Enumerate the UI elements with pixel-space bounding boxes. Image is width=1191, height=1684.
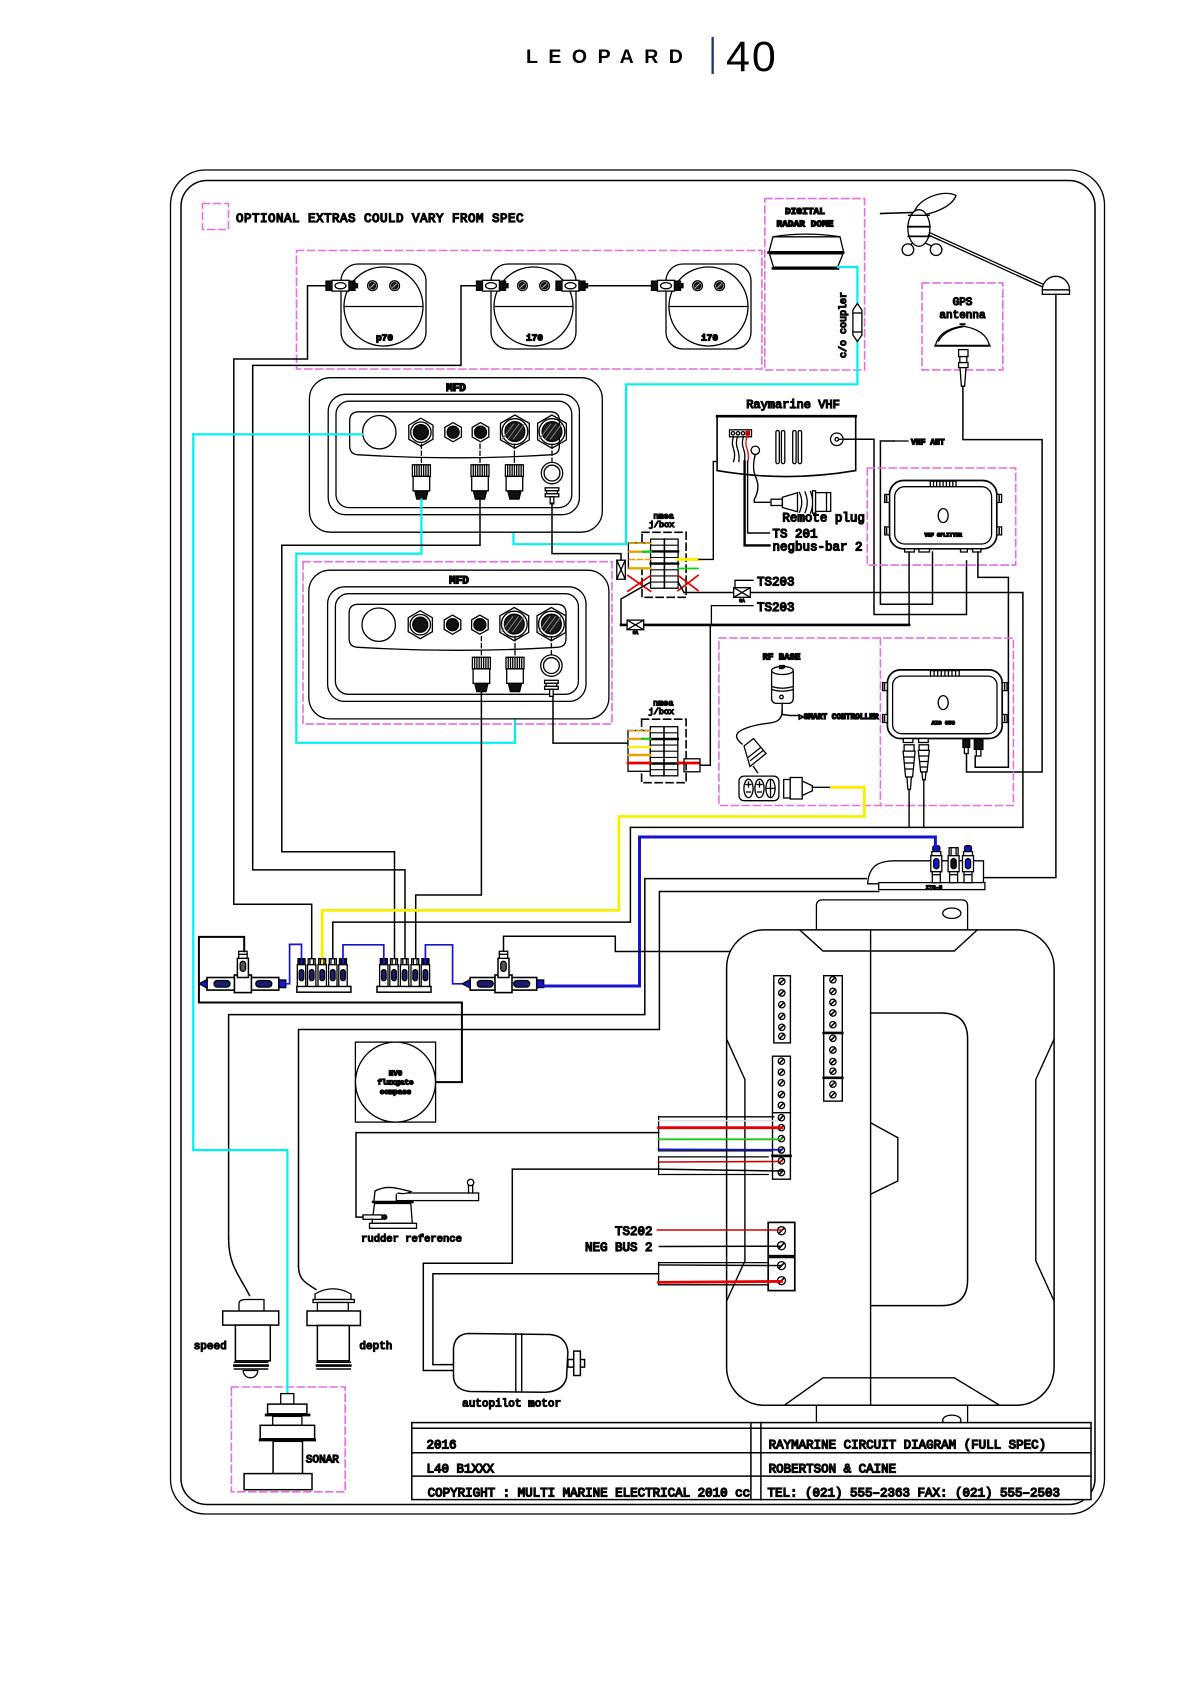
optional instruments dashed box (297, 251, 762, 370)
wire MFD1 ring connector to j/box fuse (552, 503, 621, 561)
svg-text:OPTIONAL EXTRAS COULD VARY FRO: OPTIONAL EXTRAS COULD VARY FROM SPEC (236, 212, 524, 226)
motor cable bundle (659, 1263, 769, 1285)
svg-text:TS203: TS203 (757, 576, 795, 590)
svg-text:GPS: GPS (953, 297, 973, 309)
MFD 1 (309, 378, 602, 533)
cyan wire into MFD1 left (193, 433, 362, 435)
AIS antenna plug 1 (903, 745, 915, 790)
blue wire T-left to block1 (286, 944, 302, 983)
wires AIS plugs to power junction (908, 790, 910, 828)
j/box2 output connector (684, 759, 700, 772)
ACU terminal strip C (773, 1056, 791, 1179)
j/box1 diagonal to negbus (621, 582, 651, 625)
ACU top notch (800, 930, 977, 951)
j/box1 red X right (678, 575, 698, 590)
wire ITC-5 to speed transducer (229, 879, 867, 1239)
svg-text:p70: p70 (376, 333, 393, 344)
RF base dashed box (719, 638, 1014, 806)
rudder reference (363, 1179, 479, 1228)
remote plug (771, 491, 831, 513)
VHF wire squiggles (732, 437, 748, 462)
wire splitter tab2 to VHF ANT (880, 441, 932, 604)
inline fuse 3A on negbus wire (627, 620, 644, 630)
j/box2 colored stubs (628, 731, 650, 763)
second cable bundle (659, 1157, 769, 1175)
VHF wiring connector block (730, 430, 752, 437)
ITC-5 converter (868, 861, 985, 891)
svg-text:fluxgate: fluxgate (377, 1080, 414, 1088)
inline fuse 3A on TS203 line (734, 588, 751, 598)
j/box1 colored stubs (630, 543, 651, 568)
svg-text:VHF ANT: VHF ANT (911, 439, 945, 448)
svg-text:MFD: MFD (446, 383, 466, 395)
TNC plug (744, 739, 766, 773)
black motor wire (659, 1264, 782, 1267)
instrument i70 (first) (491, 264, 576, 349)
MFD2 optional dashed box (303, 562, 612, 724)
svg-text:i70: i70 (526, 333, 543, 344)
green wire (659, 1138, 782, 1140)
TS 201 wire and label (748, 462, 770, 534)
wire j/box1 to VHF power leads (699, 462, 739, 560)
mast pole (929, 233, 1046, 288)
VHF radio body (717, 416, 856, 476)
yellow wire smart controller to backbone plug (322, 787, 864, 960)
wire splitter tab4 to AIS antenna plug (975, 552, 1008, 767)
title block (412, 1423, 1091, 1500)
ACU body (727, 930, 1055, 1405)
svg-text:RF: RF (779, 665, 785, 671)
ACU inner cover (871, 1013, 968, 1306)
wire splitter tab1 to negbus (908, 552, 910, 625)
remote plug cable (754, 455, 771, 503)
GPS wire to AIS (963, 386, 1042, 772)
AIS bottom tabs (903, 739, 928, 743)
i70 #2 connector (652, 280, 684, 291)
thick red motor wire (659, 1281, 782, 1282)
svg-text:compass: compass (380, 1089, 412, 1097)
wire MFD2 plug1 to backbone block2 plug4 (416, 692, 482, 960)
ACU latch (871, 1123, 898, 1195)
svg-text:VHF SPLITTER: VHF SPLITTER (925, 533, 963, 539)
instrument i70 (second) (666, 264, 751, 349)
svg-text:depth: depth (359, 1341, 392, 1353)
TS203 label 1 (735, 580, 753, 588)
backbone T-connector right (462, 951, 544, 992)
RF base device (772, 665, 794, 704)
ACU bottom notch (785, 1378, 999, 1405)
ACU terminal strip A (774, 976, 791, 1043)
j/box1 yellow output to VHF (678, 558, 699, 561)
c/o coupler inline capsule (853, 304, 862, 342)
svg-text:speed: speed (194, 1341, 227, 1353)
j/box2 red output (678, 762, 699, 765)
legend: optional extras dashed box (203, 204, 229, 230)
ACU inner contour right (1036, 1040, 1054, 1301)
VHF ANT leader and label (894, 440, 908, 442)
GPS antenna dashed box (922, 283, 1003, 370)
ACU center seam (870, 930, 872, 1405)
VHF splitter dashed box (867, 468, 1015, 565)
svg-text:RADAR DOME: RADAR DOME (776, 219, 833, 230)
sonar transducer (244, 1394, 315, 1490)
svg-text:TS203: TS203 (757, 601, 795, 615)
ACU top mounting tab (816, 900, 967, 929)
svg-text:j/box: j/box (649, 707, 675, 717)
dashed divider (879, 638, 881, 806)
svg-text:ROBERTSON & CAINE: ROBERTSON & CAINE (769, 1463, 897, 1477)
ITC-5 plug 3 (blue cap) (963, 846, 974, 883)
ITC-5 plug 2 (948, 848, 959, 883)
svg-text:TS 201: TS 201 (773, 528, 818, 542)
wind transducer (881, 193, 956, 255)
MFD 2 (309, 570, 609, 719)
VHF antenna jack (831, 433, 844, 446)
svg-text:3A: 3A (633, 630, 639, 636)
svg-text:i70: i70 (701, 333, 718, 344)
AIS vhf socket (974, 739, 983, 756)
wire i70#1 to i70#2 (589, 285, 652, 287)
svg-text:2016: 2016 (427, 1439, 457, 1453)
power junction horizontal (block1 plug4 / AIS / TS203) (630, 826, 1023, 828)
ACU inner contour left (727, 1040, 745, 1301)
blue link block2 to T-right (425, 945, 470, 984)
j/box1 red X left (628, 576, 651, 592)
svg-text:antenna: antenna (939, 310, 986, 322)
TS203 label 2 (711, 606, 753, 625)
svg-text:AIS 650: AIS 650 (931, 720, 955, 727)
svg-text:TS202: TS202 (615, 1225, 653, 1239)
negbus thick wire to VHF splitter (621, 624, 909, 627)
VHF vent slots (776, 431, 802, 464)
wire VHF jack to splitter tab3 (843, 439, 966, 614)
cyan wire to sonar (193, 434, 287, 1393)
VHF mic socket (751, 446, 759, 454)
smart controller plug (784, 778, 832, 800)
svg-text:COPYRIGHT : MULTI MARINE ELECT: COPYRIGHT : MULTI MARINE ELECTRICAL 2010… (428, 1487, 751, 1501)
svg-text:RF BASE: RF BASE (763, 653, 801, 663)
wire MFD1 plug2 to backbone block2 plug2 (282, 500, 480, 960)
i70 #1 right connector (556, 280, 588, 291)
svg-text:LEOPARD: LEOPARD (526, 46, 693, 68)
svg-text:DIGITAL: DIGITAL (785, 206, 825, 217)
GPS connector (959, 350, 968, 387)
instrument p70 (341, 264, 426, 349)
svg-text:Raymarine VHF: Raymarine VHF (746, 398, 840, 412)
negbus-bar 2 wire and label (745, 462, 770, 546)
ACU bottom mounting tab (816, 1406, 967, 1434)
EV0 fluxgate compass (355, 1042, 435, 1122)
backbone 5-way block 1 (297, 959, 351, 993)
thin red wire (659, 1161, 782, 1164)
backbone T-connector left (199, 951, 286, 992)
red wire (659, 1126, 782, 1129)
svg-text:ITC-5: ITC-5 (926, 884, 943, 891)
wire ITC-5 to depth transducer (299, 892, 879, 1267)
ITC-5 plug 1 (blue) (931, 846, 942, 883)
svg-text:3A: 3A (739, 598, 745, 604)
SMART CONTROLLER label (781, 703, 783, 714)
svg-text:SONAR: SONAR (306, 1455, 339, 1467)
VHF splitter (890, 481, 997, 549)
masthead base (1042, 276, 1069, 294)
black lead to motor circuit (423, 1169, 781, 1370)
inline fuse (vertical) (617, 560, 626, 579)
j/box1 green output (678, 568, 698, 570)
TS203 line 1 (to AIS power) (684, 593, 1023, 828)
svg-text:RAYMARINE CIRCUIT DIAGRAM (FUL: RAYMARINE CIRCUIT DIAGRAM (FULL SPEC) (769, 1439, 1047, 1453)
svg-text:TEL: (021) 555–2363 FAX: (021): TEL: (021) 555–2363 FAX: (021) 555–2503 (768, 1487, 1061, 1501)
svg-text:MFD: MFD (449, 576, 469, 588)
p70 connector (326, 280, 358, 291)
svg-text:rudder reference: rudder reference (361, 1234, 462, 1246)
speed transducer (223, 1300, 279, 1378)
svg-text:negbus-bar 2: negbus-bar 2 (773, 541, 863, 555)
svg-text:▷SMART CONTROLLER: ▷SMART CONTROLLER (799, 714, 879, 722)
wire MFD2 ring connector to nmea j/box 2 (553, 697, 628, 744)
ACU terminal strip E (768, 1257, 795, 1290)
wire block1 plug4 to power junction (333, 827, 631, 958)
svg-text:c/o coupler: c/o coupler (838, 292, 850, 358)
svg-text:40: 40 (726, 33, 778, 81)
j/box1 diagonal to TS203 (678, 582, 684, 593)
depth transducer (307, 1289, 360, 1369)
svg-text:EV0: EV0 (389, 1071, 403, 1079)
blue link block1 to block2 (343, 945, 384, 959)
smart controller cable (737, 710, 783, 744)
wire i70 to backbone block2 plug3 (253, 286, 477, 960)
cyan wire radar dome to MFD1 plug3 (838, 267, 857, 308)
svg-text:autopilot motor: autopilot motor (462, 1399, 561, 1411)
splitter bottom tabs (905, 549, 981, 552)
wire rudder reference to ACU (356, 1133, 659, 1218)
ACU terminal strip D (768, 1222, 795, 1255)
thick blue backbone wire to ITC-5 (640, 837, 936, 986)
radar dome body (769, 234, 844, 268)
AIS 650 (887, 670, 1002, 739)
svg-text:NEG BUS 2: NEG BUS 2 (585, 1241, 653, 1255)
svg-text:L40 B1XXX: L40 B1XXX (427, 1463, 495, 1477)
svg-text:Remote plug: Remote plug (782, 512, 865, 526)
sonar dashed box (231, 1387, 345, 1492)
GPS antenna dome (935, 324, 989, 346)
autopilot motor (454, 1334, 585, 1393)
Leopard 40 logo (526, 33, 778, 81)
AIS antenna plug 2 (918, 745, 929, 780)
digital radar dome dashed box (765, 199, 865, 370)
AIS gps socket (963, 739, 970, 754)
wire j/box2 to negbus (700, 625, 710, 765)
backbone 5-way block 2 (377, 959, 431, 993)
rudder cable bundle into ACU (659, 1117, 778, 1151)
svg-text:j/box: j/box (649, 520, 675, 530)
thick blue wire T-right to ITC-5 (544, 985, 640, 988)
wire p70 to backbone block1 plug2 (234, 286, 326, 960)
ACU terminal strip B (824, 976, 843, 1101)
battery pack connector (739, 776, 779, 801)
wind wire to ITC-5 (985, 294, 1056, 877)
blue wire (659, 1148, 782, 1150)
i70 #1 left connector (477, 280, 509, 291)
wire EV0 compass to T-connector (199, 937, 462, 1082)
cyan wire MFD1 plug1 to MFD2 plug2 (296, 500, 515, 743)
wire T-right to ACU terminal (504, 936, 824, 1003)
